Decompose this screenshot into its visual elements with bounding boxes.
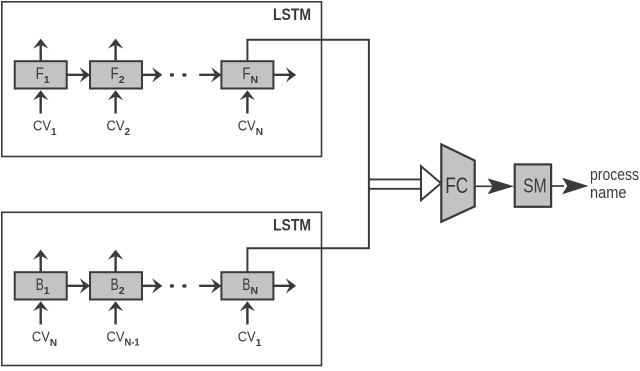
input arrow below F2 xyxy=(108,90,123,113)
label LSTM (top) xyxy=(273,5,311,24)
FC trapezoid xyxy=(441,144,474,221)
wire arrow ellipsis to FN xyxy=(199,67,221,82)
top LSTM enclosure xyxy=(2,2,322,157)
ellipsis dots (bottom row) xyxy=(170,284,187,287)
arrow FC to SM xyxy=(475,178,514,194)
label CV2 xyxy=(107,117,131,138)
output arrow right of BN xyxy=(273,278,296,293)
label CVN-1 xyxy=(107,328,140,348)
output arrow above B1 xyxy=(33,250,48,273)
input arrow below F1 xyxy=(33,90,48,113)
svg-text:name: name xyxy=(590,183,627,202)
svg-text:FC: FC xyxy=(445,173,468,198)
cell FN xyxy=(221,61,273,88)
cell B2 xyxy=(90,272,142,299)
svg-text:CVN: CVN xyxy=(32,328,57,349)
label CVN (bottom) xyxy=(32,328,57,349)
double-line bus shaft to FC xyxy=(368,179,422,188)
svg-text:LSTM: LSTM xyxy=(273,5,311,24)
svg-text:CV1: CV1 xyxy=(238,328,262,349)
arrow SM to output xyxy=(551,178,588,194)
svg-text:process: process xyxy=(590,165,639,184)
label process name xyxy=(590,165,639,202)
output arrow right of FN xyxy=(273,67,296,82)
SM box xyxy=(515,164,551,206)
cell F1 xyxy=(15,61,67,88)
wire arrow F1 to F2 xyxy=(67,67,90,82)
input arrow below B2 xyxy=(108,301,123,324)
label LSTM (bottom) xyxy=(273,215,311,234)
cell F2 xyxy=(90,61,142,88)
svg-text:LSTM: LSTM xyxy=(273,215,311,234)
svg-text:SM: SM xyxy=(523,175,547,197)
label CVN (top) xyxy=(238,117,263,138)
cell BN xyxy=(221,272,273,299)
svg-text:CVN-1: CVN-1 xyxy=(107,328,140,348)
label CV1 xyxy=(33,117,57,138)
output arrow above F1 xyxy=(33,39,48,62)
wire arrow B2 to ellipsis xyxy=(141,278,162,293)
svg-text:CV2: CV2 xyxy=(107,117,131,138)
output arrow above F2 xyxy=(108,39,123,62)
wire arrow ellipsis to BN xyxy=(199,278,221,293)
cell B1 xyxy=(15,272,67,299)
bottom LSTM enclosure xyxy=(2,212,322,365)
wire FN output to junction to BN output xyxy=(247,40,369,272)
svg-text:CV1: CV1 xyxy=(33,117,57,138)
label CV1 (bottom) xyxy=(238,328,262,349)
input arrow below FN xyxy=(240,90,255,113)
svg-text:CVN: CVN xyxy=(238,117,263,138)
input arrow below BN xyxy=(240,301,255,324)
wire arrow F2 to ellipsis xyxy=(141,67,162,82)
open arrowhead into FC xyxy=(421,166,441,200)
wire arrow B1 to B2 xyxy=(67,278,90,293)
output arrow above B2 xyxy=(108,250,123,273)
ellipsis dots (top row) xyxy=(170,73,187,76)
input arrow below B1 xyxy=(33,301,48,324)
